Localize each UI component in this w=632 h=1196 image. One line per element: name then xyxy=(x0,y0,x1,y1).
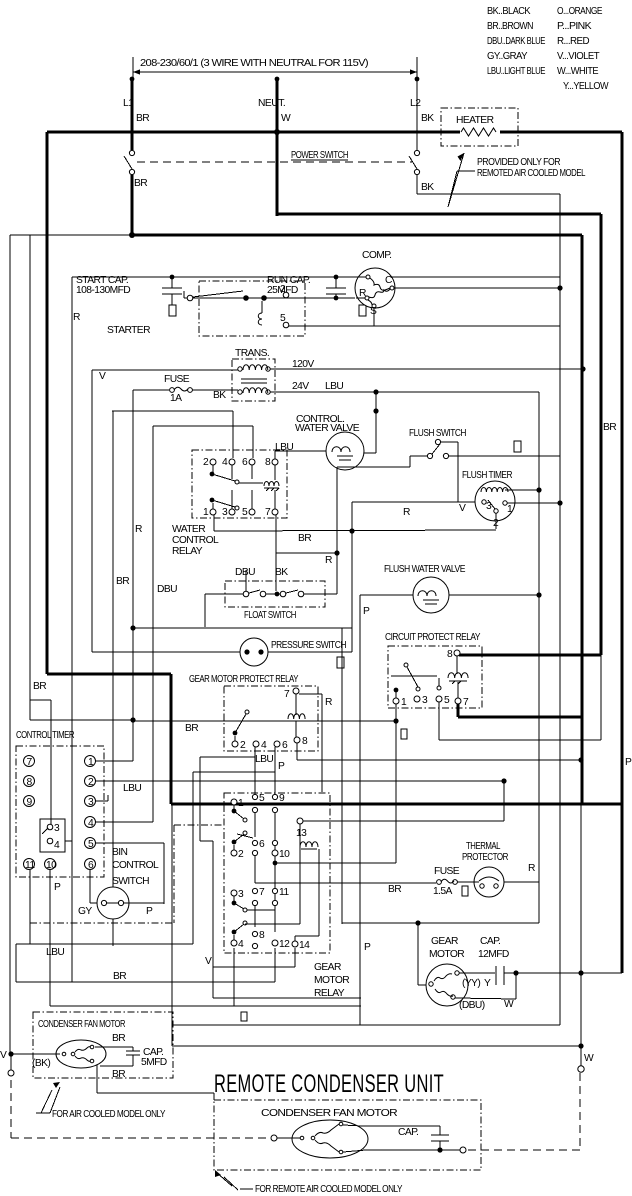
svg-text:V...VIOLET: V...VIOLET xyxy=(557,51,600,62)
svg-text:BK: BK xyxy=(275,567,288,578)
svg-text:Y: Y xyxy=(484,978,491,989)
svg-text:V: V xyxy=(0,1050,7,1061)
svg-text:R: R xyxy=(403,507,410,518)
svg-text:R: R xyxy=(325,697,332,708)
svg-text:7: 7 xyxy=(463,697,469,708)
svg-text:2: 2 xyxy=(88,777,94,788)
svg-text:REMOTED AIR COOLED MODEL: REMOTED AIR COOLED MODEL xyxy=(477,168,586,179)
svg-text:PROTECTOR: PROTECTOR xyxy=(462,852,508,863)
svg-text:5: 5 xyxy=(444,695,450,706)
svg-text:GEAR: GEAR xyxy=(314,962,341,973)
svg-text:8: 8 xyxy=(259,930,265,941)
svg-text:8: 8 xyxy=(265,457,271,468)
svg-text:1: 1 xyxy=(401,697,407,708)
svg-text:3: 3 xyxy=(486,501,492,512)
svg-text:V: V xyxy=(459,503,466,514)
svg-text:DBU: DBU xyxy=(235,567,255,578)
svg-text:GY..GRAY: GY..GRAY xyxy=(487,51,528,62)
svg-text:208-230/60/1 (3 WIRE WITH NEUT: 208-230/60/1 (3 WIRE WITH NEUTRAL FOR 11… xyxy=(140,58,368,69)
svg-text:REMOTE CONDENSER UNIT: REMOTE CONDENSER UNIT xyxy=(214,1070,444,1098)
svg-text:FOR REMOTE AIR COOLED MODEL ON: FOR REMOTE AIR COOLED MODEL ONLY xyxy=(255,1184,403,1195)
svg-text:GEAR MOTOR PROTECT RELAY: GEAR MOTOR PROTECT RELAY xyxy=(189,674,299,685)
svg-text:3: 3 xyxy=(238,889,244,900)
svg-text:LBU: LBU xyxy=(255,754,273,765)
svg-text:V: V xyxy=(205,956,212,967)
svg-text:2: 2 xyxy=(240,740,246,751)
svg-text:1: 1 xyxy=(507,504,513,515)
svg-text:LBU: LBU xyxy=(325,381,343,392)
svg-text:8: 8 xyxy=(27,777,33,788)
svg-text:P: P xyxy=(146,906,153,917)
svg-text:10: 10 xyxy=(279,849,290,860)
svg-text:3: 3 xyxy=(222,507,228,518)
svg-text:5: 5 xyxy=(280,313,286,324)
svg-text:8: 8 xyxy=(447,649,453,660)
svg-text:LBU: LBU xyxy=(123,783,141,794)
svg-text:BIN: BIN xyxy=(112,847,128,858)
svg-text:R: R xyxy=(73,312,80,323)
svg-text:2: 2 xyxy=(203,457,209,468)
svg-text:BR: BR xyxy=(388,884,401,895)
svg-text:5: 5 xyxy=(259,793,265,804)
svg-text:DBU..DARK BLUE: DBU..DARK BLUE xyxy=(487,36,546,47)
svg-text:CAP.: CAP. xyxy=(398,1127,418,1138)
svg-text:Y...YELLOW: Y...YELLOW xyxy=(563,81,609,92)
svg-text:BR..BROWN: BR..BROWN xyxy=(487,21,533,32)
svg-text:R: R xyxy=(359,288,366,299)
svg-text:W...WHITE: W...WHITE xyxy=(557,66,599,77)
svg-text:FLOAT SWITCH: FLOAT SWITCH xyxy=(244,610,296,621)
svg-text:P: P xyxy=(364,942,371,953)
svg-text:6: 6 xyxy=(242,457,248,468)
svg-text:(DBU): (DBU) xyxy=(459,1000,485,1011)
svg-text:C: C xyxy=(385,275,393,286)
svg-text:(YY): (YY) xyxy=(462,978,480,989)
svg-text:FLUSH SWITCH: FLUSH SWITCH xyxy=(409,428,466,439)
svg-text:R...RED: R...RED xyxy=(557,36,589,47)
svg-text:6: 6 xyxy=(282,740,288,751)
svg-text:R: R xyxy=(325,555,332,566)
svg-text:MOTOR: MOTOR xyxy=(314,975,349,986)
svg-text:2: 2 xyxy=(238,849,244,860)
svg-text:7: 7 xyxy=(259,887,265,898)
svg-text:COMP.: COMP. xyxy=(362,250,391,261)
svg-text:CONDENSER FAN MOTOR: CONDENSER FAN MOTOR xyxy=(38,1019,125,1030)
svg-text:13: 13 xyxy=(296,828,307,839)
svg-text:8: 8 xyxy=(302,736,308,747)
svg-text:P: P xyxy=(278,761,285,772)
svg-text:LBU: LBU xyxy=(46,947,64,958)
svg-text:BR: BR xyxy=(136,113,149,124)
svg-text:(BK): (BK) xyxy=(32,1058,50,1069)
svg-text:12: 12 xyxy=(279,939,290,950)
svg-text:HEATER: HEATER xyxy=(456,115,494,126)
svg-text:10: 10 xyxy=(46,860,57,871)
svg-text:R: R xyxy=(135,524,142,535)
svg-text:W: W xyxy=(584,1053,594,1064)
svg-text:2: 2 xyxy=(280,284,286,295)
svg-text:5: 5 xyxy=(88,839,94,850)
svg-text:7: 7 xyxy=(265,507,271,518)
svg-text:BK: BK xyxy=(213,390,226,401)
svg-text:O...ORANGE: O...ORANGE xyxy=(557,6,603,17)
svg-text:LBU..LIGHT BLUE: LBU..LIGHT BLUE xyxy=(487,66,546,77)
svg-text:9: 9 xyxy=(279,793,285,804)
svg-text:6: 6 xyxy=(88,860,94,871)
svg-text:3: 3 xyxy=(422,695,428,706)
svg-text:P: P xyxy=(625,757,632,768)
svg-text:1: 1 xyxy=(88,757,94,768)
svg-text:7: 7 xyxy=(284,689,290,700)
svg-text:TRANS.: TRANS. xyxy=(235,348,269,359)
svg-text:6: 6 xyxy=(259,839,265,850)
svg-text:4: 4 xyxy=(261,740,267,751)
svg-text:V: V xyxy=(99,371,106,382)
svg-text:120V: 120V xyxy=(292,359,314,370)
svg-text:14: 14 xyxy=(299,940,310,951)
svg-text:L2: L2 xyxy=(410,98,421,109)
svg-text:FOR AIR COOLED MODEL ONLY: FOR AIR COOLED MODEL ONLY xyxy=(52,1109,166,1120)
svg-text:P: P xyxy=(54,882,61,893)
svg-text:108-130MFD: 108-130MFD xyxy=(76,285,130,296)
svg-text:BR: BR xyxy=(112,1069,125,1080)
svg-text:GEAR: GEAR xyxy=(431,936,458,947)
svg-text:P...PINK: P...PINK xyxy=(557,21,592,32)
svg-text:CAP.: CAP. xyxy=(480,936,500,947)
svg-text:W: W xyxy=(504,999,514,1010)
svg-text:BK..BLACK: BK..BLACK xyxy=(487,6,531,17)
svg-text:P: P xyxy=(363,606,370,617)
svg-text:BR: BR xyxy=(112,1033,125,1044)
svg-text:BR: BR xyxy=(298,533,311,544)
svg-text:FLUSH TIMER: FLUSH TIMER xyxy=(462,470,512,481)
svg-text:11: 11 xyxy=(25,860,35,871)
svg-text:11: 11 xyxy=(279,887,289,898)
svg-text:CONTROL: CONTROL xyxy=(112,860,159,871)
svg-text:BR: BR xyxy=(185,723,198,734)
svg-text:CONTROL TIMER: CONTROL TIMER xyxy=(16,730,74,741)
svg-text:3: 3 xyxy=(54,823,60,834)
svg-text:FUSE: FUSE xyxy=(164,374,190,385)
svg-text:NEUT.: NEUT. xyxy=(258,98,285,109)
svg-text:BK: BK xyxy=(421,182,434,193)
svg-text:3: 3 xyxy=(88,797,94,808)
svg-text:PROVIDED ONLY FOR: PROVIDED ONLY FOR xyxy=(477,157,560,168)
svg-text:BR: BR xyxy=(116,576,129,587)
svg-text:5: 5 xyxy=(242,507,248,518)
svg-text:12MFD: 12MFD xyxy=(478,949,509,960)
svg-text:CONTROL: CONTROL xyxy=(172,535,219,546)
svg-text:4: 4 xyxy=(238,939,244,950)
svg-text:POWER SWITCH: POWER SWITCH xyxy=(291,150,348,161)
svg-text:BR: BR xyxy=(113,971,126,982)
svg-text:PRESSURE SWITCH: PRESSURE SWITCH xyxy=(271,640,346,651)
svg-text:MOTOR: MOTOR xyxy=(429,949,464,960)
svg-text:1: 1 xyxy=(203,507,209,518)
svg-text:CONDENSER FAN MOTOR: CONDENSER FAN MOTOR xyxy=(261,1108,397,1119)
svg-text:BK: BK xyxy=(421,113,434,124)
svg-text:LBU: LBU xyxy=(275,442,293,453)
svg-text:SWITCH: SWITCH xyxy=(112,876,149,887)
svg-text:RELAY: RELAY xyxy=(314,988,345,999)
svg-text:W: W xyxy=(281,113,291,124)
svg-text:1A: 1A xyxy=(170,393,182,404)
svg-text:7: 7 xyxy=(27,757,33,768)
svg-text:GY: GY xyxy=(78,906,92,917)
svg-text:BR: BR xyxy=(134,178,147,189)
svg-text:4: 4 xyxy=(88,818,94,829)
svg-text:R: R xyxy=(528,863,535,874)
svg-text:FUSE: FUSE xyxy=(434,866,460,877)
svg-text:DBU: DBU xyxy=(157,584,177,595)
svg-text:4: 4 xyxy=(222,457,228,468)
svg-text:1: 1 xyxy=(238,798,244,809)
svg-text:BR: BR xyxy=(603,422,616,433)
svg-text:5MFD: 5MFD xyxy=(141,1057,167,1068)
svg-text:FLUSH WATER VALVE: FLUSH WATER VALVE xyxy=(384,564,466,575)
svg-text:RELAY: RELAY xyxy=(172,546,203,557)
svg-text:1.5A: 1.5A xyxy=(433,886,453,897)
svg-text:BR: BR xyxy=(33,681,46,692)
svg-text:4: 4 xyxy=(54,840,60,851)
svg-text:24V: 24V xyxy=(292,381,309,392)
svg-text:WATER: WATER xyxy=(172,524,205,535)
svg-text:STARTER: STARTER xyxy=(107,325,150,336)
svg-text:THERMAL: THERMAL xyxy=(466,841,501,852)
svg-text:CIRCUIT PROTECT RELAY: CIRCUIT PROTECT RELAY xyxy=(385,632,481,643)
svg-text:9: 9 xyxy=(27,797,33,808)
